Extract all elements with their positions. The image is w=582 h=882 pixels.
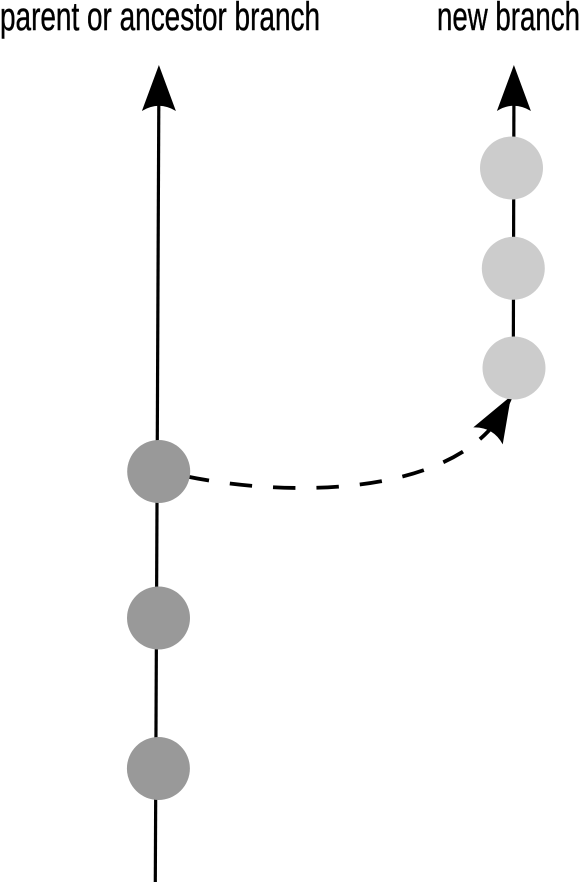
- arrowhead: new branch top: [497, 65, 531, 111]
- commit node: new branch 2: [482, 237, 545, 300]
- arrowhead: dashed merge curve end: [473, 388, 525, 445]
- commit node: parent branch 3: [127, 737, 190, 800]
- commit node: parent branch 1: [127, 440, 190, 503]
- svg-text:parent or ancestor branch: parent or ancestor branch: [0, 0, 320, 39]
- commit node: parent branch 2: [127, 587, 190, 650]
- wire: new branch vertical line: [512, 103, 516, 370]
- svg-text:new branch: new branch: [437, 0, 580, 39]
- arrowhead: parent branch top: [142, 65, 176, 111]
- commit node: new branch 1: [480, 137, 543, 200]
- wire: dashed merge curve: [187, 396, 511, 488]
- commit node: new branch 3: [483, 337, 546, 400]
- wire: parent branch vertical line: [155, 103, 159, 882]
